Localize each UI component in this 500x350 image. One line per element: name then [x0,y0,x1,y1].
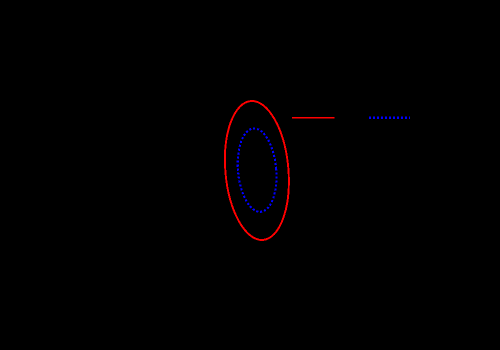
legend red solid line sample [292,117,335,119]
red ellipse (outer confidence ellipse) [219,98,294,242]
legend blue dotted line sample [369,117,410,119]
blue dotted ellipse (inner confidence ellipse) [234,127,279,214]
